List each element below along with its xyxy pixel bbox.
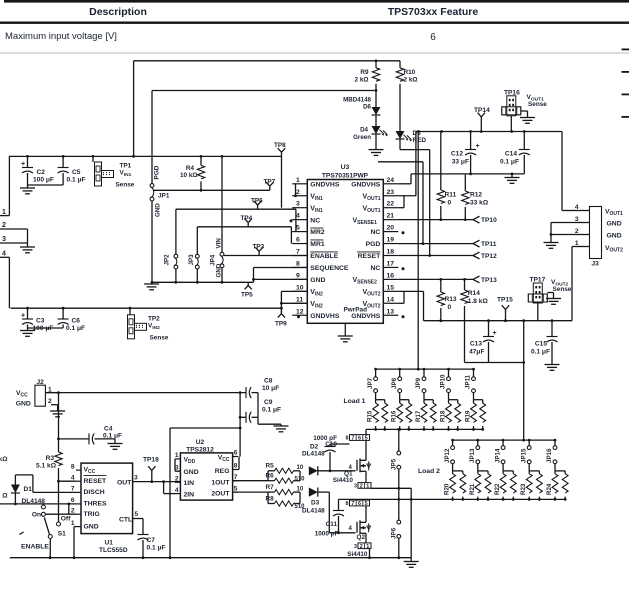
wire D3 to Q2 gate [318, 491, 330, 493]
svg-text:6: 6 [234, 450, 238, 457]
wire VCC rail [45, 392, 57, 394]
ground bottom rail [410, 558, 412, 562]
testpoint TP7 [269, 186, 271, 190]
svg-text:DL4148: DL4148 [302, 451, 325, 458]
svg-text:R12: R12 [470, 192, 482, 199]
wire MR2 net W2 TP6 [176, 208, 296, 210]
svg-text:R15: R15 [367, 410, 374, 422]
svg-text:6: 6 [430, 32, 436, 43]
wire OUT to 2IN [163, 482, 165, 494]
svg-text:24: 24 [387, 177, 395, 184]
svg-text:1OUT: 1OUT [211, 479, 230, 486]
svg-text:GND: GND [607, 233, 622, 240]
svg-text:1: 1 [296, 177, 300, 184]
svg-text:GNDVHS: GNDVHS [310, 313, 340, 320]
wire RESET to TP12 [398, 255, 473, 257]
resistor R3 [58, 439, 60, 452]
svg-text:C14: C14 [505, 151, 517, 158]
load 1 bottom rail [366, 428, 482, 430]
svg-text:2: 2 [71, 507, 75, 514]
svg-text:R14: R14 [468, 290, 480, 297]
svg-text:PwrPad: PwrPad [344, 307, 368, 314]
svg-text:JP12: JP12 [444, 448, 451, 463]
wire J3 gnd pins [551, 222, 574, 224]
svg-text:J3: J3 [592, 261, 600, 268]
svg-text:TPS2812: TPS2812 [186, 447, 214, 454]
wire bottom ground rail [10, 557, 411, 559]
svg-text:JP6: JP6 [391, 527, 398, 539]
testpoint TP4 [247, 223, 249, 227]
svg-text:JP11: JP11 [465, 374, 472, 389]
svg-text:7: 7 [296, 249, 300, 256]
wire THRES from left edge [0, 503, 76, 505]
wire GNDVHS pin24 to cap grounds [398, 183, 411, 185]
svg-text:16: 16 [387, 272, 395, 279]
svg-text:1: 1 [71, 520, 75, 527]
wire PGD pin riser [378, 161, 423, 163]
capacitor C11 [338, 499, 340, 510]
svg-text:R19: R19 [465, 410, 472, 422]
svg-text:2: 2 [48, 398, 52, 405]
svg-text:R24: R24 [546, 483, 553, 495]
jumper JP12 [452, 440, 454, 446]
svg-text:2 kΩ: 2 kΩ [404, 77, 418, 84]
svg-text:+: + [492, 330, 496, 337]
svg-text:D2: D2 [310, 444, 319, 451]
svg-text:TP15: TP15 [497, 297, 513, 304]
resistor R15 [376, 399, 385, 401]
svg-text:0.1 μF: 0.1 μF [500, 159, 519, 166]
svg-text:Ω: Ω [2, 493, 8, 500]
ground C4 [114, 439, 116, 444]
jumper JP9 [423, 369, 425, 377]
U3 pin1 GNDVHS tie [295, 184, 297, 196]
capacitor C15 [551, 321, 553, 337]
wire SEQUENCE GND pins 8 9 [253, 268, 255, 283]
svg-text:5: 5 [135, 511, 139, 518]
wire J1 pin1 from VIN rail [0, 215, 9, 217]
svg-text:J2: J2 [37, 379, 45, 386]
ground J1 [20, 246, 35, 248]
svg-text:R9: R9 [360, 69, 369, 76]
svg-text:JP10: JP10 [440, 374, 447, 389]
wire JP1 to ground rail [151, 201, 153, 282]
svg-text:Maximum input voltage [V]: Maximum input voltage [V] [5, 31, 117, 42]
svg-text:U1: U1 [105, 540, 114, 547]
wire C8 C9 ground [257, 393, 259, 425]
svg-text:2OUT: 2OUT [211, 491, 230, 498]
svg-text:GND: GND [310, 277, 325, 284]
svg-text:R17: R17 [415, 410, 422, 422]
svg-text:R16: R16 [391, 410, 398, 422]
wire U2 pin8 REG tie [238, 457, 240, 470]
wire RESET R3 to pin4 [59, 480, 77, 482]
table row rule [0, 52, 629, 55]
diode D3 DL4148 [299, 492, 301, 503]
svg-text:TP10: TP10 [481, 217, 497, 224]
svg-text:TP11: TP11 [481, 241, 497, 248]
svg-text:C8: C8 [264, 378, 273, 385]
wire U2 2OUT to gate network [233, 491, 268, 493]
svg-text:Si4410: Si4410 [333, 477, 354, 484]
capacitor C7 [138, 534, 149, 536]
svg-text:0: 0 [448, 304, 452, 311]
svg-text:20: 20 [387, 225, 395, 232]
svg-text:6: 6 [296, 237, 300, 244]
svg-text:U2: U2 [196, 439, 205, 446]
svg-text:Off: Off [61, 516, 71, 523]
testpoint TP10 [473, 216, 480, 219]
svg-text:2: 2 [360, 484, 363, 490]
svg-text:2 kΩ: 2 kΩ [354, 77, 368, 84]
svg-text:TPS70351PWP: TPS70351PWP [322, 172, 369, 179]
svg-text:1: 1 [366, 484, 369, 490]
svg-text:kΩ: kΩ [0, 456, 8, 463]
wire S1 enable to rail [49, 539, 51, 558]
wire D5 cathode to RESET net [399, 139, 401, 150]
wire ground rail jumpers [152, 281, 254, 283]
wire Q2 source to ground rail [369, 549, 371, 558]
svg-text:C9: C9 [264, 399, 273, 406]
svg-text:C7: C7 [147, 537, 156, 544]
wire VIN1 riser to pins 2 3 [281, 156, 283, 207]
svg-text:TP12: TP12 [481, 253, 497, 260]
table right edge row rules [622, 49, 629, 51]
svg-text:TP14: TP14 [474, 107, 490, 114]
svg-text:GNDVHS: GNDVHS [310, 181, 340, 188]
svg-text:GND: GND [607, 221, 622, 228]
svg-text:TP5: TP5 [241, 292, 253, 299]
jumper JP6 [397, 520, 401, 524]
svg-text:R18: R18 [440, 410, 447, 422]
wire ENABLE net W4 TP3 [224, 255, 307, 257]
resistor R17 [424, 399, 433, 401]
jumper JP7 [375, 369, 377, 377]
resistor R16 [400, 399, 409, 401]
svg-text:TP7: TP7 [264, 179, 276, 186]
svg-text:Green: Green [353, 134, 371, 141]
svg-text:21: 21 [387, 213, 395, 220]
svg-text:S1: S1 [58, 531, 66, 538]
svg-text:GND: GND [184, 469, 199, 476]
gate driver U2 TPS2812 body [180, 453, 232, 500]
capacitor C8 [245, 387, 247, 398]
resistor R13 [440, 279, 442, 292]
load 2 top rail [453, 439, 556, 441]
svg-text:TLC555D: TLC555D [99, 547, 128, 554]
svg-text:JP9: JP9 [415, 377, 422, 389]
testpoint TP8 [281, 152, 283, 156]
capacitor C6 [62, 308, 64, 319]
diode D2 DL4148 [299, 471, 301, 481]
svg-text:R10: R10 [404, 69, 416, 76]
svg-text:10 kΩ: 10 kΩ [180, 172, 198, 179]
resistor R19 [474, 399, 483, 401]
wire R14 to lower rail [464, 330, 466, 363]
svg-text:3: 3 [296, 201, 300, 208]
svg-text:5: 5 [296, 225, 300, 232]
capacitor C2 [27, 156, 29, 167]
svg-text:7: 7 [71, 486, 75, 493]
wire U1 OUT to U2 inputs [133, 481, 181, 483]
svg-text:2: 2 [175, 476, 179, 483]
resistor R9 [375, 61, 377, 68]
svg-text:C2: C2 [37, 169, 46, 176]
connector J2 [35, 385, 46, 406]
svg-text:NC: NC [370, 229, 380, 236]
svg-text:15: 15 [387, 284, 395, 291]
svg-text:R7: R7 [266, 484, 275, 491]
svg-text:GNDVHS: GNDVHS [351, 181, 381, 188]
svg-text:GND: GND [84, 523, 99, 530]
wire U2 1OUT to gate network [233, 480, 268, 482]
svg-text:Load 1: Load 1 [344, 398, 366, 405]
svg-text:14: 14 [387, 296, 395, 303]
svg-text:R3: R3 [46, 455, 55, 462]
svg-text:R13: R13 [445, 296, 457, 303]
ground J3 [550, 235, 552, 243]
resistor R14 [464, 279, 466, 290]
svg-text:NC: NC [310, 217, 320, 224]
svg-text:11: 11 [296, 296, 303, 303]
wire VSENSE2 to TP13 [398, 278, 473, 280]
wire J1 pin4 to VIN2 rail [0, 256, 9, 258]
ground under D4 [369, 149, 384, 151]
ground under C3 [20, 330, 35, 332]
resistor R4 [200, 156, 202, 165]
timer U1 TLC555D body [81, 463, 133, 533]
svg-text:D6: D6 [363, 104, 371, 111]
svg-text:3: 3 [354, 484, 357, 490]
LED D4 green [372, 126, 381, 134]
svg-text:C11: C11 [326, 521, 338, 528]
svg-text:0.1 μF: 0.1 μF [66, 325, 85, 332]
svg-text:6: 6 [71, 497, 75, 504]
resistor R8 [268, 503, 275, 505]
wire VOUT1 top rail [416, 131, 562, 133]
svg-text:R11: R11 [445, 192, 457, 199]
resistor R21 [478, 470, 488, 472]
jumper JP8 [399, 369, 401, 377]
U3 NC pin terminations [290, 219, 293, 222]
wire U2 GND pin3 [175, 470, 180, 472]
svg-text:10: 10 [297, 487, 304, 493]
resistor R11 [440, 132, 442, 191]
svg-text:10: 10 [296, 284, 304, 291]
svg-text:CTL: CTL [119, 516, 132, 523]
wire VIN2 riser pins 10 11 [280, 291, 282, 313]
svg-text:2: 2 [2, 222, 6, 229]
jumper JP3 [196, 227, 198, 254]
resistor R18 [449, 399, 458, 401]
testpoint TP1 VIN1 sense block [92, 156, 94, 162]
svg-text:TP9: TP9 [275, 321, 287, 328]
svg-text:JP13: JP13 [469, 448, 476, 463]
svg-text:7: 7 [234, 474, 238, 481]
svg-text:TP8: TP8 [274, 142, 286, 149]
svg-text:PGD: PGD [366, 241, 381, 248]
ground under C15 [545, 364, 560, 366]
wire VIN input rail [9, 155, 282, 157]
svg-text:JP14: JP14 [494, 448, 501, 463]
svg-text:33 μF: 33 μF [452, 159, 469, 166]
resistor R10 [399, 61, 401, 68]
svg-text:12: 12 [296, 308, 304, 315]
svg-text:+: + [21, 161, 25, 168]
svg-text:MR1: MR1 [310, 241, 325, 248]
testpoint TP5 [247, 282, 249, 285]
testpoint TP3 [258, 251, 260, 255]
svg-text:R21: R21 [469, 483, 476, 495]
svg-text:C12: C12 [451, 151, 463, 158]
svg-text:TP1: TP1 [120, 163, 132, 170]
wire C13 lower rail [465, 362, 524, 364]
svg-text:R20: R20 [444, 483, 451, 495]
svg-text:10: 10 [297, 465, 304, 471]
svg-text:8: 8 [296, 260, 300, 267]
svg-text:3: 3 [134, 474, 138, 481]
diode D1 DL4148 [15, 474, 33, 476]
svg-text:C13: C13 [470, 341, 482, 348]
svg-text:4: 4 [296, 213, 300, 220]
capacitor C13 [488, 321, 490, 337]
svg-text:DISCH: DISCH [84, 489, 105, 496]
svg-text:Q2: Q2 [356, 534, 365, 541]
svg-text:2: 2 [296, 189, 300, 196]
svg-text:Si4410: Si4410 [347, 551, 368, 558]
capacitor C14 [523, 132, 525, 150]
jumper JP4 [220, 252, 224, 256]
svg-text:7: 7 [351, 501, 354, 507]
svg-text:JP16: JP16 [546, 448, 553, 463]
svg-text:C15: C15 [535, 341, 547, 348]
jumper JP15 [528, 440, 530, 446]
svg-text:JP3: JP3 [188, 254, 195, 266]
wire VOUT1 pins 22 23 [398, 207, 404, 209]
svg-text:1: 1 [575, 240, 579, 247]
table header rule [0, 22, 629, 24]
diode D6 MBD4148 [372, 107, 381, 115]
testpoint TP9 [280, 311, 282, 314]
svg-text:R4: R4 [186, 165, 195, 172]
svg-text:NC: NC [370, 265, 380, 272]
svg-text:MBD4148: MBD4148 [343, 97, 371, 104]
wire TRIG tie [68, 504, 70, 514]
wire VOUT1 feed to load 1 [417, 132, 419, 370]
ground jumper rail [151, 282, 153, 284]
svg-text:1: 1 [175, 452, 179, 459]
svg-text:DL4148: DL4148 [302, 507, 325, 514]
svg-text:9: 9 [296, 272, 300, 279]
svg-text:+: + [21, 313, 25, 320]
svg-text:1IN: 1IN [184, 480, 195, 487]
svg-text:TP6: TP6 [251, 198, 263, 205]
op-amp U3 TPS70351PWP body [307, 180, 383, 324]
ground J2 pin2 [57, 405, 59, 411]
transistor Q1 Si4410 [365, 429, 367, 434]
wire PGD W1 to TP7 [153, 189, 270, 191]
svg-text:SEQUENCE: SEQUENCE [310, 265, 349, 272]
ground caps C12 C14 [511, 174, 513, 178]
svg-text:33 kΩ: 33 kΩ [470, 200, 489, 207]
wire U1 CTL to C7 [133, 518, 143, 520]
ground under C2 [20, 187, 35, 189]
svg-text:JP8: JP8 [391, 377, 398, 389]
svg-text:JP5: JP5 [391, 458, 398, 470]
svg-text:22: 22 [387, 201, 395, 208]
svg-text:R23: R23 [520, 483, 527, 495]
svg-text:OUT: OUT [117, 480, 132, 487]
ground TP16 [521, 110, 528, 112]
svg-text:R22: R22 [494, 483, 501, 495]
svg-text:TP17: TP17 [530, 277, 546, 284]
svg-text:Sense: Sense [150, 335, 169, 342]
LED D5 red [396, 131, 405, 139]
svg-text:Description: Description [89, 6, 147, 18]
svg-text:1000 pF: 1000 pF [315, 531, 339, 538]
capacitor C3 [27, 308, 29, 319]
svg-text:1: 1 [366, 544, 369, 550]
svg-text:C5: C5 [72, 169, 81, 176]
svg-text:100 μF: 100 μF [33, 177, 54, 184]
resistor R22 [503, 470, 513, 472]
svg-text:10 μF: 10 μF [262, 385, 279, 392]
svg-text:4: 4 [175, 487, 179, 494]
U1 pins left [76, 469, 81, 471]
svg-text:0: 0 [448, 200, 452, 207]
wire VOUT1 to J3 pin4 [561, 132, 563, 211]
svg-text:D1: D1 [24, 486, 33, 493]
svg-text:U3: U3 [341, 164, 350, 171]
svg-text:0.1 μF: 0.1 μF [531, 349, 550, 356]
wire VOUT2 pins 14 15 [398, 302, 404, 304]
wire VIN top rail to R9 R10 [134, 60, 400, 62]
svg-text:On: On [32, 512, 41, 519]
wire J3 pin1 VOUT2 [572, 246, 574, 248]
svg-text:8: 8 [234, 463, 238, 470]
svg-text:2: 2 [360, 544, 363, 550]
svg-text:C10: C10 [325, 441, 337, 448]
resistor R20 [453, 470, 463, 472]
capacitor C9 [240, 416, 246, 418]
svg-text:JP7: JP7 [367, 377, 374, 389]
U3 PwrPad ground [344, 323, 346, 336]
wire D2 to Q1 gate [318, 470, 356, 472]
svg-text:4: 4 [2, 251, 6, 258]
wire Q1 source to ground [371, 487, 411, 489]
wire PGD to TP11 [398, 243, 473, 245]
jumper JP10 [448, 369, 450, 377]
jumper JP14 [502, 440, 504, 446]
svg-text:2: 2 [575, 228, 579, 235]
svg-text:GND: GND [155, 203, 162, 217]
svg-text:Sense: Sense [553, 286, 572, 293]
resistor R5 [267, 471, 269, 481]
svg-text:4: 4 [71, 474, 75, 481]
capacitor C4 [59, 438, 90, 440]
svg-text:JP15: JP15 [520, 448, 527, 463]
load 2 bottom rail [339, 498, 566, 500]
svg-text:4: 4 [575, 204, 579, 211]
wire PGD vertical to JP1 [151, 91, 153, 184]
svg-text:RED: RED [413, 137, 427, 144]
svg-text:6: 6 [358, 501, 361, 507]
U3 left pins [292, 183, 307, 185]
wire MR1 net W3 TP4 [197, 226, 291, 228]
svg-text:PGD: PGD [154, 165, 161, 179]
svg-text:VIN: VIN [216, 238, 223, 249]
wire J1 pins 2 3 to ground [0, 228, 28, 230]
